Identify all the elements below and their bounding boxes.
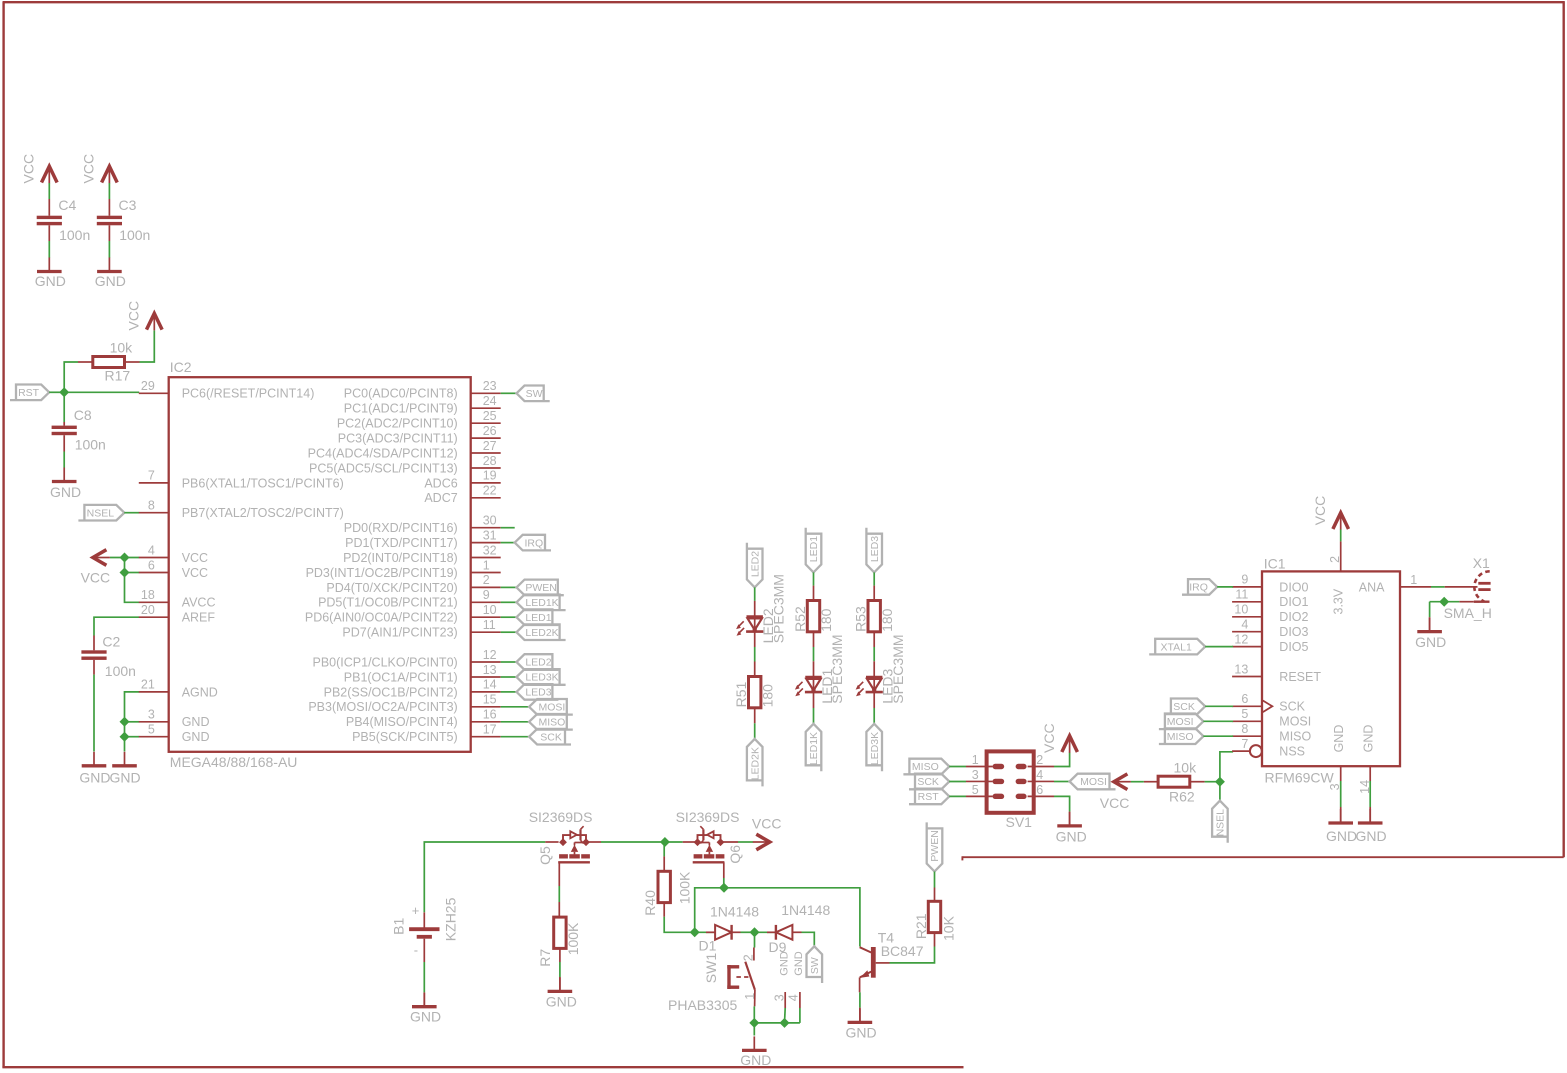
svg-text:GND: GND bbox=[1362, 725, 1376, 753]
wire node to C8 bbox=[63, 392, 65, 422]
svg-text:MISO: MISO bbox=[1167, 731, 1194, 743]
svg-text:VCC: VCC bbox=[1100, 795, 1130, 811]
wire node to pin3 bbox=[125, 721, 140, 723]
svg-text:C2: C2 bbox=[102, 634, 120, 650]
net label LED3K (bottom) bbox=[866, 724, 882, 772]
supply VCC arrow (C4) bbox=[42, 166, 58, 183]
net label IRQ (IC1) bbox=[1182, 579, 1217, 595]
net label MOSI (IC2) bbox=[529, 699, 573, 715]
frame inner step border bbox=[962, 856, 1563, 858]
wire SCK to SV1 pin3 bbox=[949, 781, 966, 783]
wire R62 to NSEL node bbox=[1205, 781, 1220, 783]
svg-text:1: 1 bbox=[743, 993, 757, 1000]
svg-text:C4: C4 bbox=[58, 197, 76, 213]
wire R17 to RST node bbox=[64, 362, 78, 392]
svg-text:PD1(TXD/PCINT17): PD1(TXD/PCINT17) bbox=[345, 536, 458, 550]
svg-text:R62: R62 bbox=[1169, 789, 1195, 805]
ground GND (C8) bbox=[50, 468, 81, 501]
svg-text:26: 26 bbox=[483, 424, 497, 438]
svg-text:8: 8 bbox=[1241, 722, 1248, 736]
svg-text:180: 180 bbox=[759, 684, 775, 708]
svg-text:10k: 10k bbox=[110, 340, 134, 356]
svg-text:BC847: BC847 bbox=[881, 943, 924, 959]
svg-text:SW: SW bbox=[809, 957, 821, 974]
svg-text:SCK: SCK bbox=[1279, 700, 1305, 714]
transistor T4 BC847 bbox=[860, 947, 890, 992]
svg-text:+: + bbox=[412, 903, 420, 918]
svg-text:SPEC3MM: SPEC3MM bbox=[770, 574, 786, 643]
wire SV1 pin2 to VCC bbox=[1054, 753, 1070, 767]
svg-text:16: 16 bbox=[483, 708, 497, 722]
svg-text:Q6: Q6 bbox=[727, 845, 743, 864]
wire IC2 pin to MISO flag bbox=[501, 721, 529, 723]
wire C3 to GND bbox=[108, 241, 110, 258]
svg-text:PD0(RXD/PCINT16): PD0(RXD/PCINT16) bbox=[344, 521, 458, 535]
svg-text:SPEC3MM: SPEC3MM bbox=[829, 634, 845, 703]
svg-text:PD6(AIN0/OC0A/PCINT22): PD6(AIN0/OC0A/PCINT22) bbox=[305, 611, 458, 625]
svg-text:R51: R51 bbox=[733, 682, 749, 708]
net label MISO (IC1) bbox=[1159, 728, 1204, 744]
svg-text:22: 22 bbox=[483, 484, 497, 498]
svg-text:11: 11 bbox=[1235, 588, 1248, 602]
wire node to Q6 bbox=[665, 841, 683, 843]
wire X1 shield to GND bbox=[1430, 601, 1460, 603]
svg-text:LED3: LED3 bbox=[525, 687, 551, 699]
wire IC1 pin3 to GND bbox=[1340, 781, 1342, 807]
svg-text:4: 4 bbox=[148, 543, 155, 557]
svg-text:ADC6: ADC6 bbox=[424, 476, 457, 490]
wire IC2 pin to LED1 flag bbox=[501, 616, 517, 618]
wire IC2 pin to LED1K flag bbox=[501, 601, 517, 603]
wire node to pin5 bbox=[125, 736, 140, 738]
svg-text:PB0(ICP1/CLKO/PCINT0): PB0(ICP1/CLKO/PCINT0) bbox=[313, 655, 458, 669]
net label RST (SV1) bbox=[909, 789, 949, 805]
wire node to NSEL flag bbox=[1219, 782, 1221, 801]
wire gnd corner bbox=[1429, 602, 1431, 618]
svg-text:IC1: IC1 bbox=[1264, 555, 1286, 571]
svg-text:1: 1 bbox=[483, 558, 490, 572]
svg-text:10: 10 bbox=[483, 603, 497, 617]
antenna X1 SMA_H bbox=[1459, 571, 1490, 601]
supply VCC arrow (R17) bbox=[147, 313, 163, 330]
wire MISO to IC1 bbox=[1203, 735, 1233, 737]
svg-text:Q5: Q5 bbox=[537, 846, 553, 865]
svg-text:VCC: VCC bbox=[81, 154, 97, 184]
svg-text:ADC7: ADC7 bbox=[424, 491, 457, 505]
ground GND (C3) bbox=[95, 258, 126, 290]
connector SV1 bbox=[966, 751, 1054, 812]
svg-text:GND: GND bbox=[79, 770, 110, 786]
svg-text:KZH25: KZH25 bbox=[443, 897, 459, 941]
svg-text:30: 30 bbox=[483, 514, 497, 528]
svg-text:PC4(ADC4/SDA/PCINT12): PC4(ADC4/SDA/PCINT12) bbox=[308, 446, 458, 460]
svg-text:GND: GND bbox=[546, 994, 577, 1010]
svg-text:MOSI: MOSI bbox=[539, 702, 566, 714]
svg-text:7: 7 bbox=[1241, 737, 1248, 751]
svg-text:PD5(T1/OC0B/PCINT21): PD5(T1/OC0B/PCINT21) bbox=[318, 596, 458, 610]
svg-text:B1: B1 bbox=[391, 918, 407, 935]
svg-text:LED1K: LED1K bbox=[525, 597, 558, 609]
wire node to IC2 pin 29 bbox=[64, 391, 139, 393]
svg-text:AGND: AGND bbox=[182, 685, 218, 699]
svg-text:100n: 100n bbox=[119, 227, 150, 243]
svg-text:19: 19 bbox=[483, 469, 497, 483]
svg-text:XTAL1: XTAL1 bbox=[1161, 641, 1192, 653]
svg-text:DIO1: DIO1 bbox=[1279, 595, 1308, 609]
svg-text:6: 6 bbox=[1036, 783, 1043, 797]
svg-text:GND: GND bbox=[1415, 634, 1446, 650]
resistor R62 bbox=[1144, 776, 1205, 787]
svg-text:1: 1 bbox=[972, 753, 979, 767]
capacitor C2 bbox=[81, 636, 106, 675]
wire node down to R40 bbox=[663, 842, 665, 856]
svg-text:6: 6 bbox=[1241, 692, 1248, 706]
wire IC2 pin to SW flag bbox=[501, 392, 517, 394]
ground GND (C4) bbox=[35, 258, 66, 290]
wire VCC node down to AVCC bbox=[125, 558, 140, 603]
svg-text:2: 2 bbox=[742, 954, 756, 961]
wire LED2 to R51 bbox=[754, 632, 756, 677]
svg-text:AVCC: AVCC bbox=[182, 596, 216, 610]
diode D1 1N4148 bbox=[706, 925, 741, 940]
node SW1 gnd junction bbox=[749, 1018, 759, 1028]
svg-text:4: 4 bbox=[1036, 768, 1043, 782]
net label LED2 (top) bbox=[747, 543, 763, 588]
svg-text:2: 2 bbox=[1036, 753, 1043, 767]
svg-text:C8: C8 bbox=[74, 407, 92, 423]
svg-text:SPEC3MM: SPEC3MM bbox=[890, 634, 906, 703]
ground GND (SV1) bbox=[1056, 812, 1087, 845]
svg-text:GND: GND bbox=[410, 1009, 441, 1025]
svg-text:NSEL: NSEL bbox=[87, 507, 115, 519]
svg-text:LED1K: LED1K bbox=[808, 732, 820, 765]
wire node to GND bbox=[753, 1023, 755, 1036]
wire Q6 gate down bbox=[723, 862, 725, 888]
net label LED1K (bottom) bbox=[806, 724, 822, 772]
svg-text:15: 15 bbox=[483, 693, 497, 707]
svg-text:NSEL: NSEL bbox=[1215, 809, 1227, 837]
svg-text:LED2: LED2 bbox=[525, 657, 551, 669]
svg-text:5: 5 bbox=[148, 723, 155, 737]
wire VCC to R17 bbox=[140, 331, 155, 363]
svg-text:6: 6 bbox=[148, 558, 155, 572]
svg-text:RST: RST bbox=[918, 791, 940, 803]
net label SCK (IC2) bbox=[529, 729, 571, 745]
capacitor C8 bbox=[52, 422, 77, 452]
svg-text:29: 29 bbox=[141, 379, 155, 393]
svg-text:GND: GND bbox=[1356, 828, 1387, 844]
wire SCK to IC1 bbox=[1205, 705, 1233, 707]
svg-text:-: - bbox=[414, 943, 418, 958]
svg-text:4: 4 bbox=[1241, 618, 1248, 632]
net label SW (switch net) bbox=[807, 946, 823, 983]
wire IC2 pin to LED3 flag bbox=[501, 691, 517, 693]
svg-text:MISO: MISO bbox=[1279, 730, 1311, 744]
wire IC2 pin 30 stub bbox=[501, 527, 515, 529]
svg-text:R53: R53 bbox=[853, 606, 869, 632]
frame step tick bbox=[961, 856, 963, 860]
svg-text:GND: GND bbox=[110, 770, 141, 786]
svg-text:GND: GND bbox=[35, 273, 66, 289]
wire LED1 to LED1K flag bbox=[813, 692, 815, 724]
net label LED3K (IC2) bbox=[517, 669, 566, 685]
wire SV1 pin4 to MOSI flag bbox=[1054, 781, 1070, 783]
net label SW (IC2) bbox=[517, 386, 550, 402]
resistor R51 bbox=[749, 677, 761, 708]
svg-text:14: 14 bbox=[483, 678, 497, 692]
svg-text:DIO5: DIO5 bbox=[1279, 640, 1308, 654]
frame right border bbox=[1562, 1, 1564, 857]
svg-text:VCC: VCC bbox=[1312, 496, 1328, 526]
svg-text:13: 13 bbox=[483, 663, 497, 677]
svg-text:MOSI: MOSI bbox=[1167, 716, 1194, 728]
svg-text:100K: 100K bbox=[565, 922, 581, 955]
net label SCK (SV1) bbox=[909, 774, 949, 790]
wire D9 to SW flag bbox=[802, 932, 815, 946]
svg-text:28: 28 bbox=[483, 454, 497, 468]
wire pin4 to node bbox=[799, 1008, 801, 1023]
wire XTAL1 to DIO5 bbox=[1205, 646, 1233, 648]
net label IRQ (IC2) bbox=[515, 535, 551, 551]
svg-text:5: 5 bbox=[972, 783, 979, 797]
svg-text:8: 8 bbox=[148, 499, 155, 513]
wire B1 to Q5 (power) bbox=[424, 842, 545, 912]
wire T4 emitter to GND bbox=[859, 992, 861, 1007]
svg-text:PC2(ADC2/PCINT10): PC2(ADC2/PCINT10) bbox=[337, 417, 458, 431]
ground GND (IC2) bbox=[110, 752, 141, 786]
resistor R17 bbox=[78, 357, 140, 368]
svg-text:PD2(INT0/PCINT18): PD2(INT0/PCINT18) bbox=[343, 551, 458, 565]
wire PWEN to R21 bbox=[934, 872, 936, 888]
wire pin3 to node bbox=[784, 1008, 787, 1023]
svg-text:VCC: VCC bbox=[182, 566, 208, 580]
svg-text:17: 17 bbox=[483, 723, 497, 737]
wire IC2 pin to LED3K flag bbox=[501, 676, 517, 678]
svg-text:GND: GND bbox=[1326, 828, 1357, 844]
capacitor C4 bbox=[37, 199, 62, 241]
svg-text:LED2: LED2 bbox=[749, 551, 761, 577]
wire VCC to R62 bbox=[1131, 781, 1144, 783]
svg-text:VCC: VCC bbox=[126, 301, 142, 331]
svg-text:20: 20 bbox=[141, 603, 155, 617]
svg-text:27: 27 bbox=[483, 439, 497, 453]
wire LED1 flag to R52 bbox=[813, 572, 815, 600]
net label NSEL (IC2) bbox=[78, 505, 124, 521]
wire MISO to SV1 pin1 bbox=[949, 766, 966, 768]
LED LED2 bbox=[736, 601, 763, 636]
svg-text:PWEN: PWEN bbox=[525, 582, 557, 594]
net label LED2 (IC2) bbox=[517, 654, 559, 670]
svg-text:C3: C3 bbox=[119, 197, 137, 213]
ground GND (B1) bbox=[410, 992, 441, 1024]
supply VCC arrow (SV1) bbox=[1062, 736, 1078, 753]
ground GND (R7) bbox=[546, 977, 577, 1009]
svg-text:R21: R21 bbox=[913, 913, 929, 939]
svg-text:LED1: LED1 bbox=[808, 536, 820, 562]
svg-text:100n: 100n bbox=[105, 663, 136, 679]
node Q6 gate junction bbox=[719, 883, 729, 893]
IC IC2 MEGA48/88/168-AU microcontroller bbox=[139, 377, 501, 752]
svg-text:R52: R52 bbox=[792, 606, 808, 632]
net label MOSI (SV1) bbox=[1070, 774, 1116, 790]
IC IC1 RFM69CW radio module bbox=[1232, 541, 1431, 781]
svg-text:RST: RST bbox=[18, 387, 40, 399]
svg-text:7: 7 bbox=[148, 469, 155, 483]
wire VCC to IC1 pin2 bbox=[1340, 530, 1342, 542]
svg-text:VCC: VCC bbox=[21, 154, 37, 184]
wire IC1 pin14 to GND bbox=[1369, 781, 1371, 807]
supply VCC arrow (C3) bbox=[102, 166, 118, 183]
svg-text:12: 12 bbox=[1234, 632, 1248, 646]
frame bottom border bbox=[2, 1066, 963, 1068]
LED LED1 bbox=[795, 677, 822, 696]
resistor R21 bbox=[928, 888, 940, 947]
resistor R53 bbox=[868, 601, 880, 632]
net label LED2K (IC2) bbox=[517, 624, 566, 640]
svg-text:2: 2 bbox=[483, 573, 490, 587]
svg-text:GND: GND bbox=[740, 1052, 771, 1068]
svg-text:PHAB3305: PHAB3305 bbox=[668, 997, 737, 1013]
svg-text:180: 180 bbox=[879, 608, 895, 632]
wire SV1 pin6 to GND bbox=[1054, 796, 1070, 811]
svg-text:GND: GND bbox=[95, 273, 126, 289]
ground GND (IC1 pin3) bbox=[1326, 807, 1357, 844]
wire IC2 pin to MOSI flag bbox=[501, 706, 529, 708]
wire gate node to left bbox=[695, 888, 724, 933]
svg-text:1N4148: 1N4148 bbox=[710, 903, 759, 919]
svg-text:GND: GND bbox=[793, 951, 805, 976]
svg-text:23: 23 bbox=[483, 379, 497, 393]
wire LED2 flag to LED2 anode bbox=[754, 587, 756, 601]
svg-text:PC1(ADC1/PCINT9): PC1(ADC1/PCINT9) bbox=[344, 402, 458, 416]
svg-text:PD4(T0/XCK/PCINT20): PD4(T0/XCK/PCINT20) bbox=[326, 581, 457, 595]
svg-text:MEGA48/88/168-AU: MEGA48/88/168-AU bbox=[170, 754, 298, 770]
wire R53 to LED3 bbox=[873, 632, 875, 677]
net label NSEL (R62) bbox=[1212, 801, 1228, 843]
svg-text:LED3K: LED3K bbox=[525, 672, 558, 684]
wire IC2 pin to LED2 flag bbox=[501, 661, 517, 663]
svg-text:31: 31 bbox=[483, 528, 497, 542]
svg-text:PWEN: PWEN bbox=[929, 830, 941, 862]
wire IRQ to DIO0 bbox=[1217, 586, 1233, 588]
svg-text:GND: GND bbox=[182, 730, 210, 744]
resistor R52 bbox=[807, 601, 819, 632]
wire node to pin6 bbox=[125, 572, 140, 574]
node R40 top junction bbox=[660, 837, 670, 847]
battery B1 bbox=[409, 912, 439, 962]
switch SW1 PHAB3305 bbox=[727, 948, 800, 1009]
svg-text:180: 180 bbox=[818, 608, 834, 632]
resistor R40 bbox=[658, 856, 670, 916]
wire RST flag to node bbox=[49, 391, 64, 393]
wire C4 to GND bbox=[48, 241, 50, 258]
svg-text:PC5(ADC5/SCL/PCINT13): PC5(ADC5/SCL/PCINT13) bbox=[309, 461, 458, 475]
svg-text:3: 3 bbox=[148, 708, 155, 722]
svg-text:PB4(MISO/PCINT4): PB4(MISO/PCINT4) bbox=[346, 715, 458, 729]
svg-text:10k: 10k bbox=[1174, 760, 1198, 776]
svg-text:GND: GND bbox=[182, 715, 210, 729]
net label LED1K (IC2) bbox=[517, 595, 566, 611]
net label RST bbox=[10, 385, 49, 401]
svg-text:GND: GND bbox=[1056, 829, 1087, 845]
svg-text:D1: D1 bbox=[699, 938, 717, 954]
svg-text:SW1: SW1 bbox=[703, 953, 719, 984]
wire Q5 to R40 node bbox=[601, 841, 665, 843]
svg-text:9: 9 bbox=[1241, 573, 1248, 587]
wire C8 to GND bbox=[63, 452, 65, 468]
svg-text:PB6(XTAL1/TOSC1/PCINT6): PB6(XTAL1/TOSC1/PCINT6) bbox=[182, 476, 344, 490]
wire gnd node horizontal bbox=[754, 1022, 800, 1024]
wire Q6 to VCC bbox=[738, 841, 753, 843]
svg-text:RFM69CW: RFM69CW bbox=[1265, 769, 1335, 785]
node X1 gnd junction bbox=[1439, 597, 1449, 607]
wire SW1 pin1 to GND node bbox=[753, 1006, 755, 1023]
svg-text:13: 13 bbox=[1234, 662, 1248, 676]
svg-text:25: 25 bbox=[483, 409, 497, 423]
wire MOSI to IC1 bbox=[1203, 720, 1233, 722]
svg-text:11: 11 bbox=[483, 618, 496, 632]
resistor R7 bbox=[554, 917, 566, 948]
svg-text:LED2K: LED2K bbox=[525, 627, 558, 639]
svg-text:3: 3 bbox=[972, 768, 979, 782]
transistor Q5 SI2369DS bbox=[545, 826, 601, 862]
wire VCC to pin4 node bbox=[110, 557, 139, 559]
svg-text:24: 24 bbox=[483, 394, 497, 408]
wire IC2 pin to SCK flag bbox=[501, 736, 529, 738]
svg-text:5: 5 bbox=[1241, 707, 1248, 721]
node GND pin3 junction bbox=[120, 717, 130, 727]
wire node to IC1 NSS bbox=[1220, 752, 1233, 782]
wire NSEL to IC2 pin 8 bbox=[124, 512, 139, 514]
wire IC2 pin to PWEN flag bbox=[501, 586, 517, 588]
svg-text:SMA_H: SMA_H bbox=[1444, 605, 1492, 621]
svg-text:10K: 10K bbox=[940, 915, 956, 941]
capacitor C3 bbox=[97, 199, 122, 241]
svg-text:LED1: LED1 bbox=[525, 612, 551, 624]
svg-text:LED3K: LED3K bbox=[869, 732, 881, 765]
svg-text:GND: GND bbox=[778, 951, 790, 976]
svg-text:PD7(AIN1/PCINT23): PD7(AIN1/PCINT23) bbox=[342, 626, 457, 640]
wire D1 to D9 node bbox=[741, 931, 755, 933]
svg-text:AREF: AREF bbox=[182, 611, 216, 625]
svg-text:3: 3 bbox=[772, 994, 786, 1001]
svg-text:DIO0: DIO0 bbox=[1279, 580, 1308, 594]
diode D9 1N4148 bbox=[767, 925, 802, 940]
svg-text:GND: GND bbox=[1332, 725, 1346, 753]
wire IC2 pin to IRQ flag bbox=[501, 542, 515, 544]
svg-text:PB7(XTAL2/TOSC2/PCINT7): PB7(XTAL2/TOSC2/PCINT7) bbox=[182, 506, 344, 520]
svg-text:IRQ: IRQ bbox=[525, 537, 544, 549]
svg-text:32: 32 bbox=[483, 543, 497, 557]
wire R7 to GND bbox=[559, 948, 561, 989]
node GND pin5 junction bbox=[120, 732, 130, 742]
svg-text:SCK: SCK bbox=[540, 731, 562, 743]
wire T4 base to R21 bbox=[890, 947, 935, 963]
transistor Q6 SI2369DS bbox=[683, 826, 738, 862]
supply VCC arrow (IC1) bbox=[1333, 513, 1349, 530]
node D1/D9/SW1 junction bbox=[750, 927, 760, 937]
svg-text:MOSI: MOSI bbox=[1279, 715, 1311, 729]
net label PWEN (R21) bbox=[927, 822, 943, 871]
svg-text:VCC: VCC bbox=[182, 551, 208, 565]
ground GND (IC1 pin14) bbox=[1356, 807, 1387, 844]
net label LED3 (IC2) bbox=[517, 684, 559, 700]
svg-text:MISO: MISO bbox=[539, 717, 566, 729]
net label XTAL1 (IC1) bbox=[1149, 639, 1205, 655]
node NSEL junction bbox=[1215, 777, 1225, 787]
svg-text:MOSI: MOSI bbox=[1080, 776, 1107, 788]
svg-text:12: 12 bbox=[483, 648, 497, 662]
